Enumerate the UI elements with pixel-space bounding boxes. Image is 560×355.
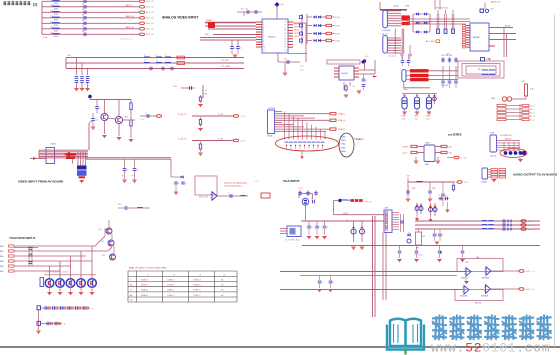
svg-text:C5: C5 <box>82 26 84 28</box>
svg-text:VGA_B: VGA_B <box>338 128 345 131</box>
svg-text:Pb1: Pb1 <box>0 251 3 253</box>
svg-text:16: 16 <box>285 38 287 40</box>
svg-text:VGA1: VGA1 <box>341 139 346 142</box>
svg-text:12: 12 <box>285 49 287 51</box>
svg-text:NC 4148 NC 4148 NC 4148 NC: NC 4148 NC 4148 NC 4148 NC <box>45 271 70 273</box>
svg-text:TV_IN: TV_IN <box>334 33 340 35</box>
svg-text:+5V: +5V <box>67 55 71 57</box>
svg-text:AUD_IN: AUD_IN <box>146 33 154 36</box>
svg-text:L13: L13 <box>50 16 53 18</box>
svg-text:V_OUT: V_OUT <box>461 158 468 160</box>
svg-text:COMP_6: COMP_6 <box>193 295 200 297</box>
svg-text:AUD_IN: AUD_IN <box>146 17 154 20</box>
svg-text:V_x: V_x <box>300 70 303 72</box>
svg-text:VGA_G: VGA_G <box>338 119 345 122</box>
svg-text:VGA4: VGA4 <box>341 150 346 153</box>
svg-text:Y_IN: Y_IN <box>240 116 245 118</box>
svg-text:C470: C470 <box>414 116 418 118</box>
svg-text:Y_IN: Y_IN <box>218 114 223 116</box>
svg-text:C_x: C_x <box>300 66 304 68</box>
svg-text:BLM: BLM <box>54 19 58 21</box>
svg-text:M52342: M52342 <box>268 37 276 39</box>
svg-text:(1): (1) <box>33 3 37 7</box>
svg-text:COMP_1: COMP_1 <box>167 285 174 287</box>
svg-text:xxx xx xxx x xx: xxx xx xxx x xx <box>120 39 133 41</box>
svg-text:Pb0: Pb0 <box>0 246 3 248</box>
svg-text:AUD_O: AUD_O <box>528 228 535 231</box>
svg-text:15: 15 <box>285 41 287 43</box>
svg-text:AU_3: AU_3 <box>530 115 535 118</box>
svg-text:AUD_IN: AUD_IN <box>146 6 154 9</box>
svg-text:COMP_0: COMP_0 <box>167 279 174 281</box>
svg-text:OUT3: OUT3 <box>294 33 299 35</box>
svg-text:21: 21 <box>285 25 287 27</box>
svg-text:LA7642: LA7642 <box>341 72 349 75</box>
svg-text:TP_SCL: TP_SCL <box>221 60 230 62</box>
svg-text:C88: C88 <box>412 188 415 190</box>
svg-text:TP GND1: TP GND1 <box>415 255 423 257</box>
svg-text:Pb5: Pb5 <box>0 271 3 273</box>
svg-text:BLM: BLM <box>54 30 58 32</box>
svg-text:CON2: CON2 <box>50 144 57 146</box>
svg-text:RR 10k: RR 10k <box>475 302 481 304</box>
svg-text:L: L <box>156 61 157 63</box>
svg-text:10k: 10k <box>476 257 479 259</box>
svg-text:VIDEO3: VIDEO3 <box>141 295 148 297</box>
svg-text:4.7k: 4.7k <box>530 89 534 91</box>
svg-text:L: L <box>165 61 166 63</box>
svg-text:YCbCr/DVD INPUT: YCbCr/DVD INPUT <box>9 236 36 240</box>
svg-text:C C C: C C C <box>298 188 304 190</box>
svg-text:AUDIO OUTPUT TO AV BOARD: AUDIO OUTPUT TO AV BOARD <box>513 173 558 177</box>
svg-text:AUD_R: AUD_R <box>126 15 134 18</box>
svg-text:C_IN_75: C_IN_75 <box>178 138 187 140</box>
svg-text:C_IN: C_IN <box>218 138 223 140</box>
svg-text:AUD_R: AUD_R <box>126 26 134 29</box>
svg-text:AU_1: AU_1 <box>530 108 535 111</box>
svg-text:+5V: +5V <box>448 153 452 155</box>
svg-text:AUD_IN: AUD_IN <box>146 22 154 25</box>
svg-text:COMP_3: COMP_3 <box>167 295 174 297</box>
svg-text:Q1: Q1 <box>99 229 102 231</box>
svg-text:L12: L12 <box>50 10 53 12</box>
svg-text:COMP_3: COMP_3 <box>193 279 200 281</box>
svg-text:+12V_IN: +12V_IN <box>364 201 372 203</box>
svg-text:AUD_L_O: AUD_L_O <box>526 270 535 273</box>
svg-text:CON15: CON15 <box>268 108 276 110</box>
svg-text:L: L <box>156 55 157 57</box>
svg-text:CON5: CON5 <box>393 6 399 8</box>
svg-text:AU_2: AU_2 <box>530 111 535 114</box>
svg-text:13: 13 <box>285 47 287 49</box>
svg-text:C4: C4 <box>82 20 84 22</box>
svg-text:NJM4558: NJM4558 <box>460 296 467 298</box>
svg-text:BLM: BLM <box>54 3 58 5</box>
svg-text:Pb2: Pb2 <box>0 256 3 258</box>
svg-text:ANALOG INPUT TO MUX SWITCHES: ANALOG INPUT TO MUX SWITCHES <box>129 266 167 269</box>
svg-text:AU_0: AU_0 <box>530 104 535 107</box>
svg-text:BLM: BLM <box>54 25 58 27</box>
svg-text:10: 10 <box>263 47 265 49</box>
svg-text:C2: C2 <box>82 9 84 11</box>
svg-text:AUDIO_5V: AUDIO_5V <box>491 1 501 4</box>
svg-text:VOL_OUT: VOL_OUT <box>199 197 209 199</box>
svg-text:C89: C89 <box>432 188 435 190</box>
svg-text:NJM4558: NJM4558 <box>481 296 488 298</box>
svg-text:x x x x x: x x x x x <box>389 56 396 58</box>
svg-text:L14: L14 <box>50 21 53 23</box>
svg-text:VGA0: VGA0 <box>341 136 346 139</box>
svg-text:L: L <box>144 55 145 57</box>
svg-text:www.520101.com: www.520101.com <box>431 341 550 355</box>
svg-text:DC POWER JACK: DC POWER JACK <box>285 239 301 242</box>
svg-text:TV_IN: TV_IN <box>334 25 340 27</box>
svg-text:ALC_ADJ: ALC_ADJ <box>426 40 435 43</box>
svg-text:COMP_2: COMP_2 <box>167 290 174 292</box>
svg-text:VGA INPUT: VGA INPUT <box>283 179 300 183</box>
svg-text:REG: REG <box>425 164 430 166</box>
svg-text:AN5891: AN5891 <box>473 36 481 39</box>
svg-text:+12V: +12V <box>402 153 408 155</box>
svg-text:L R GND DET: L R GND DET <box>500 135 513 137</box>
svg-text:+9V: +9V <box>173 86 177 88</box>
svg-text:C_x: C_x <box>141 119 144 121</box>
svg-text:AUD_IN: AUD_IN <box>146 28 154 31</box>
svg-text:11: 11 <box>263 49 265 51</box>
svg-text:C3: C3 <box>82 15 84 17</box>
svg-text:18: 18 <box>285 33 287 35</box>
svg-text:BLM: BLM <box>54 36 58 38</box>
svg-text:L11: L11 <box>50 5 53 7</box>
svg-text:17: 17 <box>285 36 287 38</box>
svg-text:OUT1: OUT1 <box>294 27 299 29</box>
svg-text:AOUT: AOUT <box>505 25 511 28</box>
svg-text:AU_4: AU_4 <box>530 118 535 121</box>
svg-text:C1: C1 <box>82 4 84 6</box>
svg-text:+5V: +5V <box>406 176 410 178</box>
svg-text:AUD_L: AUD_L <box>126 4 134 7</box>
svg-text:OUT0: OUT0 <box>294 23 299 25</box>
svg-text:C470: C470 <box>402 116 406 118</box>
svg-text:AUD_IN: AUD_IN <box>146 0 154 3</box>
svg-text:VIDEO0: VIDEO0 <box>141 279 148 281</box>
svg-text:C34 C35: C34 C35 <box>441 85 448 87</box>
svg-text:L16: L16 <box>50 32 53 34</box>
svg-text:COMP_4: COMP_4 <box>193 285 200 287</box>
svg-text:TV_IN: TV_IN <box>334 17 340 19</box>
svg-text:CN-AV: CN-AV <box>481 181 487 184</box>
svg-text:Q2: Q2 <box>101 241 104 243</box>
svg-text:AUDIO: AUDIO <box>505 138 512 141</box>
svg-text:VIDEO INPUT FROM AV BOARD: VIDEO INPUT FROM AV BOARD <box>18 180 64 184</box>
svg-text:AUD_O: AUD_O <box>528 224 535 227</box>
svg-text:VGA_R: VGA_R <box>338 113 345 116</box>
svg-text:C6: C6 <box>82 31 84 33</box>
svg-text:L: L <box>144 61 145 63</box>
svg-text:C_IN: C_IN <box>240 140 245 142</box>
svg-text:CN3_A: CN3_A <box>490 155 497 158</box>
svg-text:1u: 1u <box>132 175 134 177</box>
svg-text:x kk: x kk <box>255 181 259 183</box>
svg-text:TP_SDA: TP_SDA <box>221 65 230 68</box>
svg-text:+9V IN: +9V IN <box>402 147 409 149</box>
svg-text:VIDEO: VIDEO <box>206 20 213 22</box>
svg-text:14: 14 <box>285 44 287 46</box>
svg-text:xxx SERIES: xxx SERIES <box>448 133 462 136</box>
svg-text:22: 22 <box>285 22 287 24</box>
svg-text:BLM: BLM <box>54 14 58 16</box>
svg-text:ANALOG VIDEO INPUT: ANALOG VIDEO INPUT <box>162 16 198 20</box>
svg-text:C31 C32 C33: C31 C32 C33 <box>441 55 452 57</box>
svg-text:VGA_5V: VGA_5V <box>356 138 364 141</box>
svg-text:C470: C470 <box>426 116 430 118</box>
svg-text:VIDEO2: VIDEO2 <box>141 290 148 292</box>
svg-text:L10: L10 <box>50 0 53 1</box>
svg-text:COMP_5: COMP_5 <box>193 290 200 292</box>
svg-text:Pb3: Pb3 <box>0 261 3 263</box>
svg-text:L15: L15 <box>50 27 53 29</box>
svg-text:CON_AV1: CON_AV1 <box>382 29 391 32</box>
svg-text:1u: 1u <box>122 175 124 177</box>
svg-text:AUD_O: AUD_O <box>528 220 535 223</box>
svg-text:Pb4: Pb4 <box>0 266 3 268</box>
svg-text:DSUB: DSUB <box>267 136 273 138</box>
svg-text:OUT4: OUT4 <box>294 36 299 38</box>
svg-text:20: 20 <box>285 27 287 29</box>
svg-text:Y_IN_75: Y_IN_75 <box>178 114 187 116</box>
svg-text:TV_IN: TV_IN <box>334 40 340 42</box>
svg-text:AUD_IN: AUD_IN <box>146 11 154 14</box>
svg-text:78xx: 78xx <box>403 89 407 91</box>
svg-text:19: 19 <box>285 30 287 32</box>
svg-text:R11 R12 R13: R11 R12 R13 <box>436 8 449 10</box>
svg-text:AV_IN: AV_IN <box>382 33 388 36</box>
svg-text:NJM4558: NJM4558 <box>461 278 468 280</box>
svg-text:Q3: Q3 <box>102 255 105 257</box>
svg-text:Segments for brightening in: Segments for brightening in <box>224 182 247 185</box>
svg-text:NJM4558: NJM4558 <box>482 278 489 280</box>
svg-text:AUD_R_O: AUD_R_O <box>526 288 535 291</box>
svg-text:+5V: +5V <box>448 147 452 149</box>
svg-text:25 flash Black Signal: 25 flash Black Signal <box>224 186 242 188</box>
svg-text:VGA2: VGA2 <box>341 143 346 146</box>
svg-text:BLM: BLM <box>54 8 58 10</box>
svg-text:R0: R0 <box>205 94 207 96</box>
svg-text:OUT2: OUT2 <box>294 30 299 32</box>
svg-text:VGA3: VGA3 <box>341 146 346 149</box>
svg-text:Pb: Pb <box>130 285 132 287</box>
svg-text:L: L <box>165 55 166 57</box>
svg-text:VIDEO1: VIDEO1 <box>141 285 148 287</box>
